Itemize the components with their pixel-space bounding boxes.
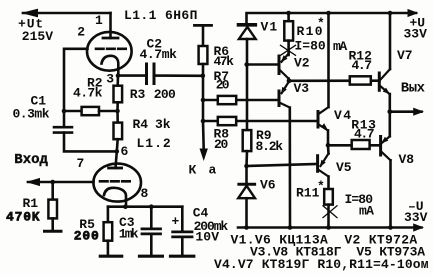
wire C1 top lead xyxy=(63,111,66,127)
tube L1.1 anode xyxy=(103,37,118,40)
resistor R12 xyxy=(350,76,371,84)
node +Ut arrow xyxy=(21,9,38,18)
wire top-left +Ut rail xyxy=(23,12,111,15)
wire cathode bus xyxy=(108,205,182,208)
resistor R4 xyxy=(114,123,123,140)
tube L1.2 cathode xyxy=(104,188,126,207)
svg-text:215V: 215V xyxy=(22,29,53,44)
svg-text:20: 20 xyxy=(214,137,229,152)
ground C4 xyxy=(171,255,194,258)
wire R12 line xyxy=(289,79,380,82)
capacitor C2 xyxy=(145,64,148,84)
svg-text:R3: R3 xyxy=(130,87,146,102)
svg-text:8.2k: 8.2k xyxy=(256,139,284,154)
wire R2 left lead xyxy=(64,110,82,113)
node top rail junction V7 xyxy=(388,11,393,16)
svg-text:*: * xyxy=(317,179,325,194)
resistor R3 xyxy=(114,86,123,103)
node junction R2/R3/R4 xyxy=(115,109,120,114)
svg-text:V4: V4 xyxy=(334,108,353,123)
wire R3 bottom lead xyxy=(116,102,119,111)
node rail junction V8 xyxy=(388,225,393,230)
wire V5 base line xyxy=(247,164,317,166)
svg-text:2: 2 xyxy=(77,25,85,40)
wire V7 collector column xyxy=(389,13,392,69)
svg-text:mA: mA xyxy=(333,39,347,54)
wire R1 top lead xyxy=(51,182,54,200)
node output junction xyxy=(387,109,392,114)
svg-text:mA: mA xyxy=(359,204,374,219)
wire C1 bottom to L1.2 anode xyxy=(64,133,117,152)
wire R10 bottom lead xyxy=(287,41,290,55)
node junction V5 base xyxy=(244,164,249,169)
svg-text:V3: V3 xyxy=(294,81,310,96)
diode V6 xyxy=(239,183,255,186)
svg-text:7: 7 xyxy=(77,156,85,171)
svg-text:V7: V7 xyxy=(397,48,413,63)
wire V4 collector column xyxy=(327,13,330,107)
node junction V2/V3/R12 xyxy=(287,78,292,83)
wire R4 top lead xyxy=(116,111,119,123)
wire C2 to R6 column xyxy=(154,74,203,77)
transistor V5 xyxy=(316,156,319,172)
wire L1.2 grid to input xyxy=(28,181,94,184)
wire V2 base xyxy=(247,63,278,66)
svg-text:0.3mk: 0.3mk xyxy=(13,107,50,122)
wire R6 bottom lead xyxy=(202,64,205,76)
svg-text:200: 200 xyxy=(154,87,176,102)
wire top rail +U xyxy=(247,13,417,24)
tube L1.1 cathode xyxy=(102,56,119,76)
svg-text:33V: 33V xyxy=(404,210,428,225)
wire R2 right lead xyxy=(99,110,118,113)
svg-text:1mk: 1mk xyxy=(119,226,139,241)
wire grid L1.1 to left xyxy=(64,49,88,111)
tube L1.1 envelope xyxy=(87,32,132,71)
resistor R1 xyxy=(48,200,57,219)
node junction grid/R2/C1 xyxy=(62,109,67,114)
node junction cathode/C2/R3 xyxy=(116,73,121,78)
node break mark X at R10 xyxy=(281,45,296,55)
tube L1.2 anode xyxy=(109,167,122,170)
svg-text:20: 20 xyxy=(216,78,230,93)
tube L1.2 grid xyxy=(100,180,131,183)
node break mark X at R11 xyxy=(323,206,337,218)
wire C3 bottom lead xyxy=(150,234,153,255)
wire C4 top lead xyxy=(181,207,184,231)
wire R9 to V5 base node xyxy=(245,151,248,166)
capacitor C3 xyxy=(142,227,161,230)
resistor R9 xyxy=(243,130,252,151)
wire C3 top lead xyxy=(150,207,153,228)
wire R5 bottom lead xyxy=(107,241,110,255)
svg-text:4.7k: 4.7k xyxy=(73,86,103,101)
transistor V7 xyxy=(378,73,381,90)
svg-text:3: 3 xyxy=(106,72,114,87)
node R6 supply T-bar xyxy=(195,24,212,27)
svg-text:а: а xyxy=(209,163,217,178)
node output arrow xyxy=(413,108,424,116)
wire column to R7 xyxy=(202,76,205,100)
node junction grid/R1 xyxy=(50,180,55,185)
svg-text:V5: V5 xyxy=(336,160,352,175)
wire R1 bottom lead xyxy=(51,218,54,230)
ground R1 xyxy=(45,230,62,233)
svg-text:4.7: 4.7 xyxy=(352,58,372,73)
resistor R11 xyxy=(324,189,333,205)
transistor V3 xyxy=(278,91,281,106)
node +U arrow xyxy=(408,9,419,17)
resistor R7 xyxy=(218,96,236,104)
wire V1 to V2 base node xyxy=(246,39,249,65)
wire bias column to V6 xyxy=(245,166,248,184)
svg-text:Вых: Вых xyxy=(401,80,426,96)
transistor V8 xyxy=(379,137,382,156)
wire output node to V8 emitter xyxy=(388,112,391,137)
resistor R5 xyxy=(104,222,113,241)
resistor R8 xyxy=(218,117,236,125)
wire output xyxy=(390,110,422,113)
svg-text:1: 1 xyxy=(95,13,103,28)
wire V8 collector to bottom rail xyxy=(389,160,392,227)
svg-text:V6: V6 xyxy=(260,178,276,193)
wire bias column to R9 xyxy=(246,65,249,131)
wire R10 top lead xyxy=(287,13,290,21)
svg-text:470K: 470K xyxy=(6,210,40,225)
node rail junction V6 xyxy=(244,225,249,230)
svg-text:4.7mk: 4.7mk xyxy=(140,47,178,62)
svg-text:3k: 3k xyxy=(155,117,171,132)
node -U arrow xyxy=(413,223,424,231)
svg-text:6: 6 xyxy=(121,144,129,159)
node feedback arrow K a xyxy=(200,149,208,162)
node junction V4/V5/R13 xyxy=(326,143,331,148)
wire R11 to bottom rail xyxy=(327,205,330,228)
svg-text:I=80: I=80 xyxy=(295,39,326,54)
wire V6 to bottom rail xyxy=(245,198,248,227)
svg-text:R4: R4 xyxy=(133,117,149,132)
wire column to feedback arrow xyxy=(202,121,205,149)
resistor R6 xyxy=(199,46,208,64)
wire L1.2 anode lead xyxy=(116,151,117,168)
svg-text:*: * xyxy=(317,16,325,31)
svg-text:Вход: Вход xyxy=(14,152,48,168)
svg-text:V2: V2 xyxy=(294,56,310,71)
wire R5 top lead xyxy=(107,207,110,223)
node junction R8 xyxy=(201,119,206,124)
resistor R2 xyxy=(82,107,99,115)
wire cathode to C2 xyxy=(118,74,147,77)
svg-text:К: К xyxy=(189,163,197,178)
wire R4 bottom lead xyxy=(116,139,119,151)
wire V3 emitter to bottom rail xyxy=(288,108,291,228)
svg-text:8: 8 xyxy=(141,186,149,201)
wire R3 top lead xyxy=(116,76,119,86)
svg-text:V1: V1 xyxy=(261,19,279,34)
wire R6 top lead xyxy=(202,25,205,46)
transistor V4 xyxy=(317,112,320,128)
node top rail junction V4 xyxy=(326,11,331,16)
svg-text:10V: 10V xyxy=(195,230,219,245)
wire R7 line xyxy=(203,99,278,102)
node rail junction R11 xyxy=(326,225,331,230)
resistor R10 xyxy=(284,21,293,40)
node junction V2 base xyxy=(244,62,249,67)
tube L1.1 grid xyxy=(96,47,126,50)
svg-text:V4.V7 КТ819Г R10,R11=4-10ом: V4.V7 КТ819Г R10,R11=4-10ом xyxy=(214,257,429,272)
node junction R4/L1.2 anode xyxy=(115,149,120,154)
wire R13 line xyxy=(328,144,380,147)
svg-text:33V: 33V xyxy=(404,27,428,42)
capacitor C4 xyxy=(173,230,192,233)
svg-text:4.7: 4.7 xyxy=(354,127,374,142)
svg-text:47k: 47k xyxy=(214,54,235,69)
ground R5 xyxy=(100,255,121,258)
transistor V2 xyxy=(278,56,281,74)
node rail junction V3 emitter xyxy=(288,225,293,230)
node junction cathode L1.2 xyxy=(123,204,128,209)
svg-text:V8: V8 xyxy=(399,152,415,167)
svg-text:L1.2: L1.2 xyxy=(137,136,172,151)
node top rail junction R10 xyxy=(286,11,291,16)
node junction C3 xyxy=(149,204,154,209)
ground C3 xyxy=(140,255,163,258)
wire R8 line xyxy=(203,120,317,123)
tube L1.2 envelope xyxy=(93,164,141,202)
resistor R13 xyxy=(352,140,370,149)
node input arrow xyxy=(26,178,40,186)
node junction C2/R6 xyxy=(201,74,206,79)
wire V4 emitter to node xyxy=(327,130,330,145)
svg-text:L1.1 6Н6П: L1.1 6Н6П xyxy=(124,8,198,23)
wire V5 collector to R11 xyxy=(327,177,330,190)
wire bottom rail -U xyxy=(238,226,422,229)
wire V7 emitter to output node xyxy=(388,94,391,112)
capacitor C1 xyxy=(54,126,72,129)
diode V1 xyxy=(239,23,256,27)
svg-text:200: 200 xyxy=(74,228,100,243)
wire C4 bottom lead xyxy=(181,237,184,255)
wire pin1 lead xyxy=(109,13,112,38)
svg-text:+: + xyxy=(172,214,180,229)
node junction R7 xyxy=(201,98,206,103)
wire column to R8 xyxy=(202,100,205,121)
